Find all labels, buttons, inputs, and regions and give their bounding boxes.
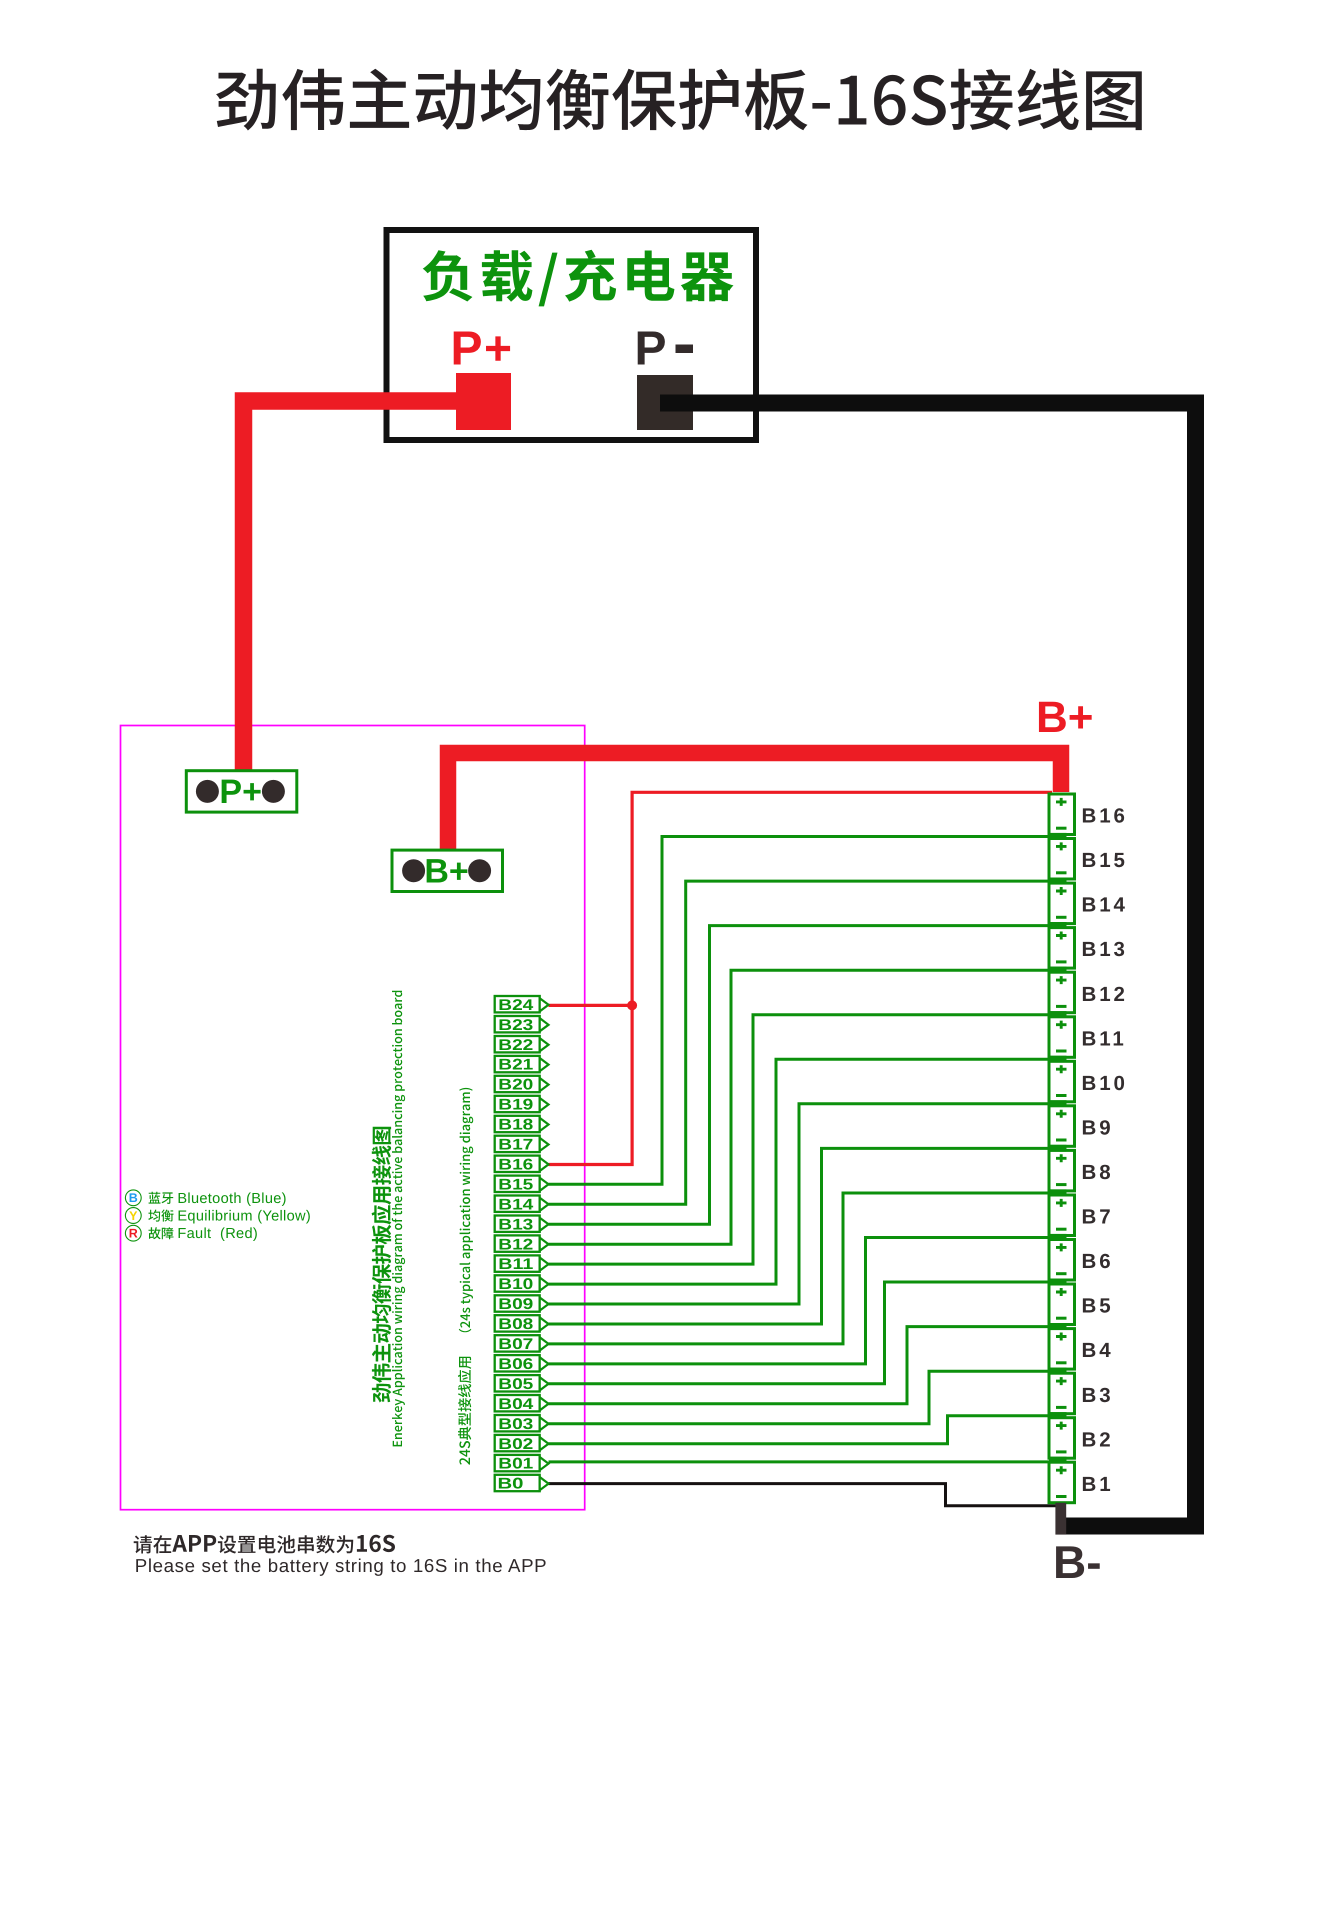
battery B8 — [1049, 1150, 1075, 1191]
svg-text:B24: B24 — [498, 997, 533, 1014]
svg-text:B08: B08 — [498, 1316, 533, 1333]
svg-text:B+: B+ — [424, 853, 468, 891]
junction nub between B16 and B15 — [1049, 833, 1067, 840]
svg-text:B9: B9 — [1082, 1116, 1114, 1139]
pin B22 (balance connector) — [495, 1036, 549, 1054]
junction nub between B2 and B1 — [1049, 1457, 1067, 1464]
pin B03 (balance connector) — [495, 1415, 549, 1433]
svg-text:B8: B8 — [1082, 1161, 1114, 1184]
junction nub between B12 and B11 — [1049, 1011, 1067, 1018]
svg-text:B22: B22 — [498, 1037, 533, 1054]
pin B11 (balance connector) — [495, 1255, 549, 1273]
svg-text:B5: B5 — [1082, 1295, 1114, 1318]
title text 劲伟主动均衡保护板-16S接线图 — [216, 69, 1142, 131]
svg-text:B06: B06 — [498, 1356, 533, 1373]
pin B24 (balance connector) — [495, 996, 549, 1014]
load/charger box 负载/充电器 — [387, 230, 757, 440]
svg-text:B09: B09 — [498, 1296, 533, 1313]
junction nub between B8 and B7 — [1049, 1189, 1067, 1196]
pin B23 (balance connector) — [495, 1016, 549, 1034]
pin B13 (balance connector) — [495, 1216, 549, 1234]
svg-text:B10: B10 — [1082, 1072, 1128, 1095]
svg-text:B1: B1 — [1082, 1473, 1114, 1496]
svg-text:B16: B16 — [1082, 805, 1128, 828]
junction nub between B10 and B9 — [1049, 1100, 1067, 1107]
svg-text:B01: B01 — [498, 1456, 533, 1473]
wire sense B15: pin to battery junction B16/B15 — [549, 837, 1053, 1185]
battery B6 — [1049, 1240, 1075, 1281]
svg-text:B13: B13 — [1082, 938, 1128, 961]
pin B15 (balance connector) — [495, 1176, 549, 1194]
protection board outline (purple) — [121, 726, 585, 1510]
pin B10 (balance connector) — [495, 1275, 549, 1293]
pin B17 (balance connector) — [495, 1136, 549, 1154]
wire red branch to pin B24 — [549, 1004, 633, 1007]
svg-text:B05: B05 — [498, 1376, 533, 1393]
svg-text:B-: B- — [1053, 1536, 1102, 1588]
svg-text:Equilibrium (Yellow): Equilibrium (Yellow) — [177, 1209, 311, 1225]
battery B11 — [1049, 1017, 1075, 1058]
LED legend B: 蓝牙 Bluetooth (Blue) — [125, 1190, 286, 1207]
wire sense B06: pin to battery junction B7/B6 — [549, 1238, 1053, 1364]
pin B12 (balance connector) — [495, 1235, 549, 1253]
svg-text:B11: B11 — [498, 1256, 533, 1273]
node junction dot (red) — [627, 1000, 637, 1010]
battery B10 — [1049, 1061, 1075, 1102]
junction nub between B13 and B12 — [1049, 967, 1067, 974]
wire sense B05: pin to battery junction B6/B5 — [549, 1282, 1053, 1384]
wire sense B03: pin to battery junction B4/B3 — [549, 1371, 1053, 1424]
svg-text:Y: Y — [129, 1209, 138, 1223]
svg-text:P: P — [635, 323, 667, 376]
battery B7 — [1049, 1195, 1075, 1236]
svg-text:B14: B14 — [498, 1196, 533, 1213]
svg-text:B07: B07 — [498, 1336, 533, 1353]
svg-text:B2: B2 — [1082, 1428, 1114, 1451]
junction nub between B11 and B10 — [1049, 1056, 1067, 1063]
terminal P- square (dark) — [637, 375, 693, 430]
svg-text:Please set the battery string: Please set the battery string to 16S in … — [135, 1555, 547, 1576]
battery B12 — [1049, 972, 1075, 1013]
junction nub between B4 and B3 — [1049, 1368, 1067, 1375]
vertical label 劲伟主动均衡保护板应用接线图 — [372, 1127, 392, 1403]
junction nub between B6 and B5 — [1049, 1279, 1067, 1286]
svg-text:B13: B13 — [498, 1216, 533, 1233]
svg-text:B03: B03 — [498, 1416, 533, 1433]
pin B01 (balance connector) — [495, 1455, 549, 1473]
svg-text:B: B — [129, 1191, 138, 1205]
svg-text:B3: B3 — [1082, 1384, 1114, 1407]
battery B15 — [1049, 839, 1075, 880]
vertical label 24S典型接线应用 (24s typical application wiring diagram) — [458, 1088, 473, 1465]
pin B20 (balance connector) — [495, 1076, 549, 1094]
svg-text:B15: B15 — [498, 1176, 533, 1193]
battery B2 — [1049, 1418, 1075, 1459]
pin B21 (balance connector) — [495, 1056, 549, 1074]
wire sense B14: pin to battery junction B15/B14 — [549, 881, 1053, 1204]
wire P+ (thick red) from charger P+ to board P+ pad — [244, 401, 457, 772]
svg-text:B23: B23 — [498, 1017, 533, 1034]
svg-text:B11: B11 — [1082, 1027, 1127, 1050]
pin B08 (balance connector) — [495, 1315, 549, 1333]
charger label 负载/充电器 — [423, 250, 734, 307]
pin B14 (balance connector) — [495, 1196, 549, 1214]
svg-text:B18: B18 — [498, 1117, 533, 1134]
svg-text:B6: B6 — [1082, 1250, 1114, 1273]
battery B3 — [1049, 1373, 1075, 1414]
junction nub between B7 and B6 — [1049, 1234, 1067, 1241]
terminal P+ square (red) — [456, 373, 511, 430]
wire sense B09: pin to battery junction B10/B9 — [549, 1104, 1053, 1304]
battery B9 — [1049, 1106, 1075, 1147]
svg-text:B10: B10 — [498, 1276, 533, 1293]
svg-text:B04: B04 — [498, 1396, 533, 1413]
svg-text:B12: B12 — [498, 1236, 533, 1253]
svg-text:B02: B02 — [498, 1436, 533, 1453]
pin B19 (balance connector) — [495, 1096, 549, 1114]
svg-text:Bluetooth (Blue): Bluetooth (Blue) — [177, 1191, 286, 1207]
battery B1 negative stub (dark) — [1055, 1503, 1066, 1535]
svg-text:B21: B21 — [498, 1057, 533, 1074]
svg-text:B15: B15 — [1082, 849, 1128, 872]
pin B05 (balance connector) — [495, 1375, 549, 1393]
pin B02 (balance connector) — [495, 1435, 549, 1453]
battery B4 — [1049, 1329, 1075, 1370]
battery B1 — [1049, 1462, 1075, 1503]
wire P- (thick black): right side down to B- — [660, 403, 1196, 1526]
pin B09 (balance connector) — [495, 1295, 549, 1313]
pin B16 (balance connector) — [495, 1156, 549, 1174]
vertical label Enerkey Application wiring diagram — [392, 991, 405, 1447]
wire sense B01: pin to battery junction B2/B1 — [549, 1460, 1053, 1463]
wire sense B08: pin to battery junction B9/B8 — [549, 1148, 1053, 1324]
svg-text:R: R — [129, 1227, 138, 1241]
svg-text:B12: B12 — [1082, 983, 1128, 1006]
wire sense B10: pin to battery junction B11/B10 — [549, 1059, 1053, 1284]
wire sense B13: pin to battery junction B14/B13 — [549, 926, 1053, 1225]
battery B5 — [1049, 1284, 1075, 1325]
junction nub between B15 and B14 — [1049, 878, 1067, 885]
note line 1 请在APP设置电池串数为16S — [134, 1535, 395, 1554]
LED legend Y: 均衡 Equilibrium (Yellow) — [125, 1208, 311, 1225]
svg-text:B16: B16 — [498, 1157, 533, 1174]
battery B13 — [1049, 928, 1075, 969]
battery B16 — [1049, 794, 1075, 835]
board pad P+ (green box with two pads) — [186, 771, 296, 812]
board pad B+ (green box with two pads) — [392, 850, 503, 891]
svg-text:B+: B+ — [1036, 693, 1093, 742]
svg-text:Fault (Red): Fault (Red) — [177, 1226, 258, 1242]
svg-text:B14: B14 — [1082, 894, 1128, 917]
wire sense B04: pin to battery junction B5/B4 — [549, 1327, 1053, 1404]
svg-text:B4: B4 — [1082, 1339, 1114, 1362]
LED legend R: 故障 Fault&#160; (Red) — [125, 1225, 258, 1242]
pin B0 (balance connector) — [495, 1475, 549, 1493]
svg-text:B0: B0 — [498, 1476, 524, 1493]
svg-text:B7: B7 — [1082, 1206, 1114, 1229]
junction nub between B14 and B13 — [1049, 922, 1067, 929]
pin B18 (balance connector) — [495, 1116, 549, 1134]
svg-text:P+: P+ — [450, 323, 513, 376]
svg-text:B17: B17 — [498, 1137, 533, 1154]
battery B14 — [1049, 883, 1075, 924]
wire sense B0 (black): pin B0 to battery B1 negative — [549, 1484, 1061, 1506]
pin B04 (balance connector) — [495, 1395, 549, 1413]
junction nub between B5 and B4 — [1049, 1323, 1067, 1330]
wire red sense: battery B16 positive to pins B24 and B16 — [549, 792, 1053, 1164]
pin B06 (balance connector) — [495, 1355, 549, 1373]
svg-text:B19: B19 — [498, 1097, 533, 1114]
wire sense B11: pin to battery junction B12/B11 — [549, 1015, 1053, 1264]
wire sense B12: pin to battery junction B13/B12 — [549, 970, 1053, 1244]
wire sense B02: pin to battery junction B3/B2 — [549, 1416, 1053, 1444]
pin B07 (balance connector) — [495, 1335, 549, 1353]
wire sense B07: pin to battery junction B8/B7 — [549, 1193, 1053, 1344]
junction nub between B9 and B8 — [1049, 1145, 1067, 1152]
svg-text:B20: B20 — [498, 1077, 533, 1094]
wire B+ (thick red) from board B+ pad to battery B16 positive — [448, 753, 1061, 853]
svg-text:P+: P+ — [219, 773, 262, 811]
junction nub between B3 and B2 — [1049, 1412, 1067, 1419]
